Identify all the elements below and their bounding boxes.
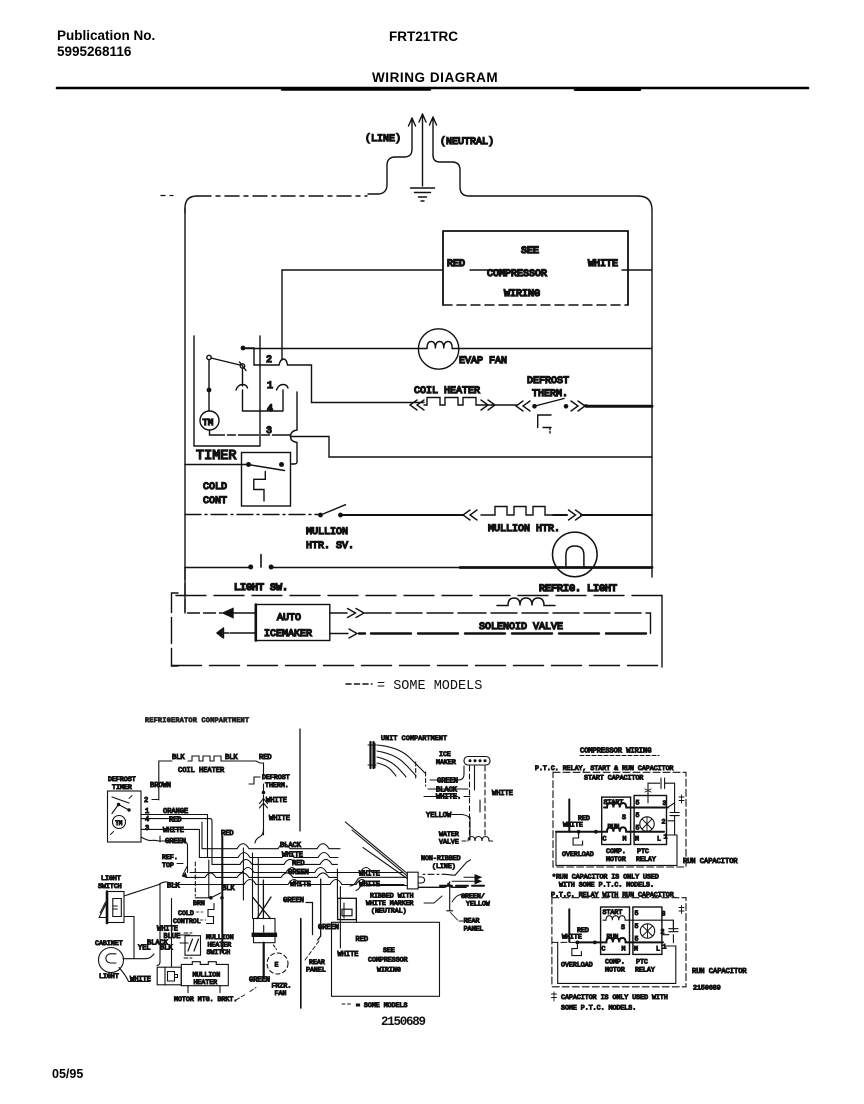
wire: coil heater loop top	[159, 761, 172, 800]
note: capacitor only used	[552, 992, 557, 1001]
wire: white to right edge	[622, 269, 652, 271]
svg-text:WHITE: WHITE	[359, 881, 380, 889]
fan connector block	[254, 919, 276, 943]
cold control bellows	[254, 472, 265, 502]
wire: top-right corner	[638, 196, 652, 210]
wire: light bus	[185, 567, 248, 569]
dots 2	[576, 941, 580, 945]
wires fanning from plug	[377, 745, 425, 777]
timer switch arm	[211, 358, 240, 365]
run capacitor 2	[662, 920, 678, 943]
svg-text:COMPRESSOR: COMPRESSOR	[368, 957, 408, 964]
wire: green bus	[190, 868, 403, 873]
svg-text:M: M	[622, 946, 626, 953]
svg-text:MAKER: MAKER	[436, 759, 456, 766]
wire: icemaker out bottom with arrow	[330, 633, 348, 635]
wire: pole A down to timer motor	[208, 360, 210, 411]
svg-text:SWITCH: SWITCH	[207, 949, 231, 956]
svg-text:MULLION: MULLION	[206, 934, 234, 941]
light switch actuator	[260, 555, 262, 568]
wire: to rear panel	[451, 913, 464, 922]
svg-text:COLD: COLD	[203, 482, 227, 493]
svg-text:CONTROL: CONTROL	[173, 918, 201, 925]
start capacitor symbol	[648, 778, 675, 803]
svg-text:2: 2	[662, 819, 666, 826]
junction dot	[207, 388, 212, 393]
svg-text:E: E	[275, 962, 279, 969]
svg-text:1: 1	[267, 381, 273, 392]
wire: verticals through labels	[157, 836, 160, 966]
svg-text:= SOME MODELS: = SOME MODELS	[377, 679, 482, 694]
wire: white pair to fan connector	[337, 869, 340, 898]
wire: box top-left corner	[185, 196, 197, 213]
legend small: some models	[342, 1003, 352, 1005]
svg-text:ORANGE: ORANGE	[163, 808, 188, 816]
wire: green to icemaker	[430, 766, 464, 780]
wire: green vertical to arrow	[318, 879, 321, 940]
wire: green/yellow drop	[447, 882, 453, 911]
wire: contact 3 to lower bus	[291, 437, 330, 465]
svg-text:COMP.: COMP.	[606, 848, 626, 855]
wire: wiper link	[243, 368, 298, 430]
svg-text:SOLENOID VALVE: SOLENOID VALVE	[479, 622, 563, 633]
svg-text:START: START	[603, 909, 623, 916]
cold control dots	[246, 462, 251, 467]
svg-text:FRZR.: FRZR.	[272, 983, 292, 990]
box1 border	[553, 772, 686, 867]
wire: top right	[471, 195, 638, 197]
svg-text:PANEL: PANEL	[306, 967, 326, 974]
run capacitor chain	[668, 803, 680, 835]
svg-text:TIMER: TIMER	[196, 449, 237, 464]
wire: orange vertical	[207, 819, 209, 858]
svg-text:BLACK: BLACK	[280, 842, 302, 850]
svg-text:2: 2	[144, 797, 148, 805]
wire: right edge	[651, 210, 653, 577]
refrig light filament	[566, 546, 584, 568]
svg-text:DEFROST: DEFROST	[108, 776, 136, 783]
svg-text:5: 5	[635, 910, 639, 917]
timer common dot	[241, 346, 246, 351]
svg-text:TIMER: TIMER	[112, 784, 132, 791]
arrows <<	[463, 510, 477, 520]
start winding line + coil	[604, 803, 668, 808]
svg-text:WHITE: WHITE	[492, 790, 513, 798]
svg-text:WHITE: WHITE	[269, 815, 290, 823]
overload step	[573, 832, 583, 845]
svg-text:HTR. SV.: HTR. SV.	[306, 541, 354, 552]
svg-text:SEE: SEE	[383, 947, 395, 954]
svg-text:5: 5	[636, 800, 640, 807]
svg-text:WHITE: WHITE	[588, 259, 618, 270]
defrost therm arrows <<	[516, 401, 530, 411]
svg-text:BLK: BLK	[167, 883, 180, 891]
mullion heater box	[181, 962, 228, 986]
svg-text:WHITE.: WHITE.	[436, 794, 461, 802]
svg-text:COLD: COLD	[178, 910, 194, 917]
compressor box	[443, 231, 628, 305]
svg-text:GREEN: GREEN	[283, 897, 304, 905]
water valve coil	[462, 837, 491, 842]
wire: common to contact 2	[243, 348, 312, 403]
svg-text:L: L	[657, 836, 661, 843]
svg-text:RUN CAPACITOR: RUN CAPACITOR	[692, 968, 747, 976]
refrig light circle	[553, 532, 598, 577]
neutral wire (right)	[433, 155, 471, 196]
wire	[312, 403, 588, 406]
svg-text:WHITE: WHITE	[359, 871, 380, 879]
svg-text:ICEMAKER: ICEMAKER	[264, 629, 312, 640]
left bracket	[172, 593, 179, 666]
dashed sub-box top	[176, 595, 662, 597]
dashed verticals from connector	[470, 766, 486, 840]
svg-text:YELLOW: YELLOW	[426, 812, 452, 820]
svg-text:3: 3	[662, 911, 666, 918]
wire: black bus	[202, 844, 340, 849]
svg-text:YEL: YEL	[138, 945, 151, 953]
solenoid valve coil	[497, 598, 555, 606]
legend dashes	[346, 683, 372, 685]
wire: light to white plug	[119, 968, 150, 982]
svg-text:4: 4	[145, 816, 149, 824]
svg-text:WITH SOME P.T.C. MODELS.: WITH SOME P.T.C. MODELS.	[559, 882, 654, 889]
svg-text:5: 5	[635, 923, 639, 930]
evap fan coil	[427, 342, 452, 349]
defrost limit bracket	[538, 415, 551, 428]
svg-text:RED: RED	[292, 860, 305, 868]
ptc relay box 2	[633, 907, 662, 954]
svg-text:GREEN: GREEN	[437, 778, 458, 786]
svg-text:EVAP FAN: EVAP FAN	[459, 356, 507, 367]
svg-text:WIRING DIAGRAM: WIRING DIAGRAM	[372, 70, 498, 85]
wire: top dashed (line side)	[197, 195, 367, 197]
wire: non-ribbed dash-dot	[423, 873, 445, 875]
svg-text:MULLION: MULLION	[193, 972, 221, 979]
inner box1	[556, 832, 677, 866]
svg-text:DEFROST: DEFROST	[262, 774, 290, 781]
svg-text:UNIT COMPARTMENT: UNIT COMPARTMENT	[381, 735, 447, 742]
wire: red vertical mid	[211, 827, 213, 864]
coil heater resistor (small)	[188, 756, 221, 761]
wire: terminal 1 orange	[141, 815, 208, 819]
svg-text:WHITE: WHITE	[562, 934, 582, 941]
svg-text:RELAY: RELAY	[635, 967, 655, 974]
wire: 5 to start cap	[647, 791, 649, 803]
svg-text:MOTOR: MOTOR	[606, 856, 626, 863]
svg-text:Publication No.: Publication No.	[57, 28, 155, 43]
svg-text:CONT: CONT	[203, 496, 227, 507]
wire: white vertical	[568, 799, 570, 831]
timer motor TM	[200, 411, 219, 430]
defrost therm contacts	[532, 404, 537, 409]
ptc disc	[640, 817, 654, 831]
compartment divider line	[299, 729, 301, 831]
arrows >>	[569, 510, 583, 520]
wire: fan drop thick	[263, 943, 265, 978]
svg-text:REAR: REAR	[309, 959, 325, 966]
svg-text:1: 1	[664, 834, 668, 841]
wire: defrost therm down	[263, 784, 265, 835]
header rule	[57, 87, 808, 90]
plug symbol lower	[217, 628, 229, 638]
svg-text:2150689: 2150689	[381, 1015, 426, 1029]
svg-text:HEATER: HEATER	[208, 942, 232, 949]
contact 1 wiper arcs	[236, 385, 248, 391]
wire: white pair into plug	[350, 877, 407, 890]
wire: white joins bundle	[255, 829, 264, 843]
wire: green from timer	[141, 837, 188, 873]
svg-text:REF.: REF.	[162, 854, 178, 861]
svg-text:WHITE: WHITE	[338, 951, 359, 959]
white/red harness connector	[338, 898, 357, 919]
svg-text:M: M	[635, 836, 639, 843]
svg-text:REAR: REAR	[464, 918, 480, 925]
svg-text:PTC: PTC	[637, 848, 649, 855]
svg-text:*RUN CAPACITOR IS ONLY USED: *RUN CAPACITOR IS ONLY USED	[552, 874, 659, 881]
ice maker connector	[464, 757, 490, 766]
svg-text:(LINE): (LINE)	[365, 133, 401, 145]
svg-text:REFRIGERATOR COMPARTMENT: REFRIGERATOR COMPARTMENT	[145, 717, 249, 724]
svg-text:ICE: ICE	[439, 751, 451, 758]
timer motor TM	[113, 816, 126, 829]
overload dots	[577, 830, 581, 834]
dagger 2	[679, 906, 684, 914]
svg-text:(NEUTRAL): (NEUTRAL)	[371, 908, 407, 915]
svg-text:5: 5	[636, 825, 640, 832]
wire to defrost therm	[221, 761, 264, 776]
start winding box	[602, 797, 631, 844]
wire: vertical into cold control	[208, 860, 210, 898]
wire: bundle verticals down	[243, 848, 258, 919]
wire: thick to right edge	[586, 405, 652, 408]
svg-text:AUTO: AUTO	[277, 613, 301, 624]
timer switch pole circle A	[207, 355, 211, 359]
svg-text:CAPACITOR IS ONLY USED WITH: CAPACITOR IS ONLY USED WITH	[561, 994, 668, 1001]
wire: rear panel dashes	[305, 941, 319, 960]
contact 2 cam hook	[279, 359, 288, 365]
svg-text:WHITE MARKER: WHITE MARKER	[366, 900, 414, 907]
wire: terminal 2 to brown vertical	[152, 799, 159, 801]
wire: red vertical thick	[221, 836, 223, 952]
ptc disc 2	[640, 924, 654, 938]
svg-text:DEFROST: DEFROST	[527, 376, 569, 387]
svg-text:M: M	[623, 836, 627, 843]
svg-text:5995268116: 5995268116	[57, 44, 132, 59]
svg-text:LIGHT: LIGHT	[101, 875, 121, 882]
wire: heater box bottom drop	[188, 986, 220, 993]
auto icemaker box	[256, 605, 330, 641]
wire: dash-dot from left	[185, 514, 318, 516]
svg-text:COMPRESSOR WIRING: COMPRESSOR WIRING	[580, 748, 651, 756]
timer enclosure bracket	[194, 336, 260, 446]
overload step 2	[572, 943, 582, 956]
svg-text:BLK: BLK	[222, 885, 235, 893]
wire: timer motor to contact 3 line	[210, 430, 291, 435]
svg-text:TOP: TOP	[162, 862, 174, 869]
wire: terminal 3 white	[141, 829, 199, 857]
white chevrons on wire	[260, 799, 268, 809]
dashed sub-box bottom	[172, 665, 663, 667]
svg-text:2150689: 2150689	[693, 985, 721, 992]
svg-text:PTC: PTC	[636, 959, 648, 966]
unit compartment plug	[371, 742, 374, 768]
svg-text:REFRIG. LIGHT: REFRIG. LIGHT	[539, 584, 617, 595]
svg-text:COMP.: COMP.	[605, 959, 625, 966]
svg-text:OVERLOAD: OVERLOAD	[561, 962, 593, 969]
plug prong arrows	[409, 118, 416, 149]
light switch spring hatch	[99, 902, 107, 918]
svg-text:WHITE: WHITE	[290, 881, 311, 889]
svg-text:5: 5	[636, 812, 640, 819]
svg-text:PANEL: PANEL	[464, 926, 484, 933]
wire: icemaker out top with arrows	[330, 612, 347, 614]
svg-text:LIGHT SW.: LIGHT SW.	[234, 583, 288, 594]
mullion heater resistor	[481, 507, 553, 516]
svg-text:BROWN: BROWN	[150, 782, 171, 790]
svg-text:S: S	[622, 814, 626, 821]
svg-text:WHITE: WHITE	[282, 852, 303, 860]
svg-text:GREEN: GREEN	[288, 869, 309, 877]
arrows >>	[481, 400, 495, 410]
svg-text:OVERLOAD: OVERLOAD	[562, 851, 594, 858]
diagonals from bundle to plug	[345, 822, 407, 879]
wire: switch to blk bus	[124, 885, 159, 897]
coil heater resistor	[424, 398, 478, 406]
cabinet light bulb	[99, 948, 124, 973]
svg-text:M: M	[634, 946, 638, 953]
inner box2	[558, 942, 676, 983]
wire: white drop	[339, 898, 341, 948]
svg-text:WIRING: WIRING	[377, 967, 401, 974]
svg-text:RED: RED	[356, 936, 369, 944]
svg-text:RED: RED	[169, 817, 182, 825]
ptc relay box	[634, 796, 666, 845]
line wire (left)	[368, 149, 412, 194]
start winding box 2	[601, 907, 630, 954]
svg-text:S: S	[621, 924, 625, 931]
switch box with slashes	[185, 936, 201, 956]
svg-text:RED: RED	[259, 754, 272, 762]
wire: cold control feed	[291, 463, 294, 465]
line plug connector	[407, 872, 418, 889]
wire: green into box left	[343, 903, 345, 918]
timer internal contacts	[117, 803, 120, 806]
cold control bellows	[207, 904, 215, 924]
svg-text:BLK: BLK	[172, 754, 185, 762]
wire: green label to rear panel line	[306, 903, 313, 935]
wire: black	[428, 788, 468, 790]
svg-text:FAN: FAN	[275, 990, 287, 997]
arrows <<	[410, 400, 424, 410]
svg-text:NON-RIBBED: NON-RIBBED	[421, 855, 461, 862]
svg-text:= SOME MODELS: = SOME MODELS	[356, 1002, 407, 1009]
svg-text:RIBBED WITH: RIBBED WITH	[370, 893, 414, 900]
svg-text:C: C	[602, 946, 606, 953]
wire: terminal 4 red	[141, 819, 212, 827]
svg-text:MULLION: MULLION	[306, 527, 348, 538]
svg-text:WHITE: WHITE	[163, 827, 184, 835]
svg-text:VALVE: VALVE	[439, 839, 459, 846]
wire: switch bottom wires	[123, 917, 154, 959]
svg-text:THERM.: THERM.	[265, 782, 289, 789]
svg-text:FRT21TRC: FRT21TRC	[389, 29, 458, 44]
wire: bus below defrost	[329, 456, 652, 458]
cold control contacts	[209, 896, 213, 900]
cold control box	[242, 453, 291, 507]
svg-text:COIL HEATER: COIL HEATER	[178, 767, 225, 775]
svg-text:SOME P.T.C. MODELS.: SOME P.T.C. MODELS.	[561, 1005, 636, 1012]
right edge	[661, 596, 663, 668]
svg-text:START CAPACITOR: START CAPACITOR	[584, 775, 643, 782]
svg-text:WHITE: WHITE	[130, 976, 151, 984]
light switch contacts	[248, 565, 253, 570]
svg-text:C: C	[603, 836, 607, 843]
wire: feed from left edge	[185, 568, 222, 614]
run line 2	[552, 941, 578, 943]
wire: into cold control	[185, 464, 248, 466]
crossing wires above connector	[253, 880, 272, 919]
run line + coil	[556, 827, 664, 832]
svg-text:GREEN: GREEN	[318, 924, 339, 932]
box2 border	[552, 898, 686, 987]
heater plug	[157, 967, 181, 985]
wire: brkt pointer	[236, 988, 256, 1001]
svg-text:RED: RED	[447, 259, 465, 270]
timer switch pole circle B with slash	[240, 364, 244, 368]
svg-text:RUN CAPACITOR: RUN CAPACITOR	[683, 858, 738, 866]
ground symbol	[411, 188, 435, 201]
light switch body	[108, 892, 125, 923]
feed arrowhead	[223, 609, 233, 618]
svg-text:WHITE: WHITE	[266, 797, 287, 805]
svg-text:WATER: WATER	[439, 831, 459, 838]
svg-text:3: 3	[663, 800, 667, 807]
evap fan motor circle	[418, 329, 458, 369]
wire: red drop into box	[356, 900, 358, 922]
svg-text:GREEN/: GREEN/	[461, 893, 485, 900]
wire: vertical from red line down to timer contact 2	[281, 270, 283, 360]
dashed verticals	[416, 762, 426, 786]
rear panel vertical line	[300, 919, 302, 1009]
defrost therm arrows >>	[571, 401, 585, 411]
svg-text:4: 4	[267, 404, 273, 415]
svg-text:MOTOR: MOTOR	[605, 967, 625, 974]
defrost therm symbol (small step)	[249, 777, 260, 784]
cold control arm	[251, 465, 285, 471]
svg-text:P.T.C. RELAY, START & RUN CAPA: P.T.C. RELAY, START & RUN CAPACITOR	[535, 765, 674, 772]
wire: white bus	[199, 853, 338, 858]
svg-text:SEE: SEE	[521, 246, 539, 257]
wire: to resistor	[342, 514, 652, 516]
svg-text:YELLOW: YELLOW	[466, 901, 490, 908]
svg-text:WIRING: WIRING	[504, 289, 540, 300]
svg-text:BRN: BRN	[193, 900, 205, 907]
svg-text:(LINE): (LINE)	[432, 863, 456, 870]
svg-text:HEATER: HEATER	[194, 979, 218, 986]
wire: red bus	[212, 859, 337, 864]
svg-text:CABINET: CABINET	[95, 940, 123, 947]
svg-text:COIL HEATER: COIL HEATER	[414, 386, 480, 397]
wire: white bus 2	[159, 880, 404, 885]
wire: left edge	[184, 208, 186, 613]
svg-text:MOTOR MTG. BRKT.: MOTOR MTG. BRKT.	[174, 996, 237, 1003]
wire: yellow down	[469, 817, 471, 840]
svg-text:L: L	[656, 946, 660, 953]
svg-text:RELAY: RELAY	[636, 856, 656, 863]
svg-text:5: 5	[635, 936, 639, 943]
wire: evap fan line	[243, 348, 652, 350]
svg-text:TM: TM	[203, 418, 214, 428]
